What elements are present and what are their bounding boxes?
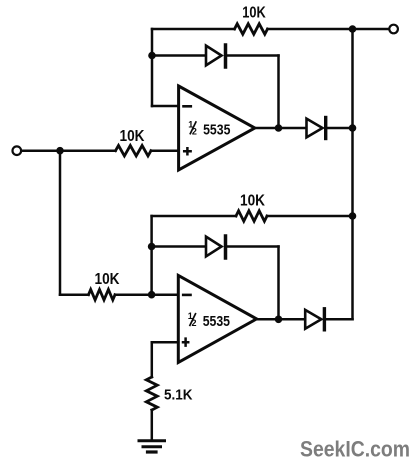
node: U2 output [275,316,283,324]
wire: plus to R5 [151,342,154,377]
wire: U2 plus stub [152,341,179,344]
svg-text:10K: 10K [120,128,146,145]
diode D1 (top feedback) [152,45,279,67]
node: right rail at U1 row [349,124,357,132]
wire: input branch vertical [59,151,62,295]
svg-text:10K: 10K [242,5,266,22]
resistor R2 10K (top feedback) [235,5,268,35]
resistor R5 5.1K [146,377,193,410]
ground [139,441,165,452]
svg-text:5535: 5535 [203,313,230,330]
wire: right rail vertical [351,29,354,319]
wire: input to R1 [21,149,115,152]
diode D3 (lower feedback) [152,236,279,258]
wire: R4 to U2 minus input [115,293,178,296]
svg-text:SeekIC.com: SeekIC.com [300,437,410,462]
svg-text:5.1K: 5.1K [164,387,193,403]
node: top output junction [349,25,357,33]
op-amp U1 [179,86,255,170]
node: U1 output [275,124,283,132]
wire: R1 to U1 plus input [151,149,179,152]
wire: U2 output to D4 [257,318,305,321]
resistor R4 10K (input to U2 -) [89,271,121,300]
node: lower diode branch [148,243,156,251]
svg-text:10K: 10K [240,193,266,210]
svg-text:5535: 5535 [203,121,230,138]
output terminal J2 [389,25,398,34]
resistor R1 10K (input to U1 +) [116,128,152,156]
wire: R5 to ground [151,410,154,439]
node: feedback diode branch (top) [148,52,156,60]
svg-text:10K: 10K [95,271,121,288]
wire: minus stub to U1 [152,105,179,108]
wire: D3 to U2 output node [277,247,280,320]
node: right rail at lower feedback row [349,212,357,220]
wire: U1 output to D2 [255,127,306,130]
node: input junction [56,147,64,155]
wire: lower feedback row left vertical [150,216,153,295]
wire: input branch to R4 [60,293,89,296]
wire: top row right of R2 to output terminal [268,28,390,31]
wire: lower feedback resistor row left [152,215,236,218]
op-amp U2 [178,275,256,362]
wire: D1 to U1 output node [277,56,280,129]
wire: lower feedback resistor row right [267,215,353,218]
wire: top row left of R2 [152,28,235,31]
resistor R3 10K (lower feedback) [236,193,267,222]
diode D2 (top output) [307,118,353,139]
svg-text:2: 2 [192,126,197,136]
svg-text:2: 2 [192,318,197,328]
diode D4 (lower output) [305,309,352,330]
wire: U1 minus feedback node vertical [151,29,154,106]
node: U2 minus input junction [148,291,156,299]
input terminal J1 [12,146,21,155]
